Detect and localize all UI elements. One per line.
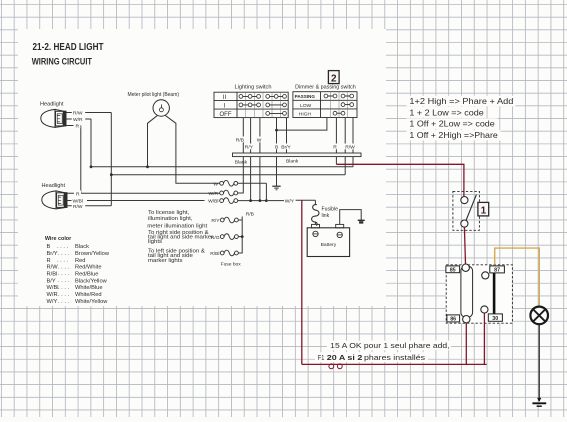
- main wire H2: [111, 157, 345, 175]
- label B: [274, 144, 280, 151]
- fuse R/G: [220, 234, 238, 240]
- svg-text:Brown/Yellow: Brown/Yellow: [75, 251, 110, 257]
- wire R/W from HL2: [67, 113, 111, 206]
- wire W fuse right: [238, 183, 267, 200]
- legend row R/W: [47, 264, 102, 270]
- svg-text:Fusible: Fusible: [322, 207, 339, 213]
- dimmer row labels: [295, 94, 316, 117]
- switch lever: [466, 195, 476, 221]
- red wire switch to relay coil: [464, 227, 465, 264]
- svg-text:To license light,: To license light,: [148, 210, 190, 216]
- relay coil: [461, 266, 473, 317]
- label R: [74, 123, 81, 130]
- svg-text:W: W: [213, 181, 218, 187]
- wire W/Bl from HL2: [67, 200, 205, 202]
- svg-text:II: II: [223, 95, 227, 101]
- svg-text:85: 85: [450, 268, 456, 274]
- svg-text:Red/Blue: Red/Blue: [75, 271, 98, 277]
- wire R from HL2 to W/R fuse: [67, 192, 220, 194]
- lamp wire to ground: [538, 324, 540, 401]
- lamp: [530, 307, 548, 325]
- label Br/Y: [281, 144, 294, 151]
- wire B below bus to ground: [276, 157, 278, 186]
- connector bus bar: [233, 153, 362, 157]
- relay contact terminal top: [482, 272, 489, 279]
- svg-text:R/W: R/W: [73, 204, 83, 210]
- lamp ground symbol: [532, 398, 546, 406]
- svg-text:. . . .: . . . .: [57, 258, 68, 264]
- switch contact top: [461, 197, 468, 204]
- wire R to red feed: [335, 157, 337, 165]
- wire W/Y to fusible link: [296, 200, 316, 205]
- svg-text:PASSING: PASSING: [295, 94, 316, 99]
- junction node on H1 at meter leg: [146, 165, 149, 168]
- label R/W (HL2): [72, 203, 85, 210]
- ground symbol B: [272, 186, 280, 190]
- lighting switch contacts row I: [239, 103, 286, 107]
- svg-text:phares installés: phares installés: [364, 353, 425, 362]
- fuse R/Y: [220, 217, 238, 223]
- svg-text:R/B: R/B: [236, 138, 244, 144]
- scanned page: [18, 29, 386, 306]
- legend row B/Y: [47, 278, 108, 284]
- svg-text:1: 1: [481, 205, 487, 216]
- battery: [307, 224, 349, 256]
- wire R from HL1: [66, 126, 81, 194]
- lighting switch table: [214, 92, 288, 117]
- svg-text:HIGH: HIGH: [299, 111, 312, 117]
- wires from dimmer switch to connector: [277, 118, 354, 154]
- junction node B / dimmer: [275, 129, 278, 132]
- svg-text:Headlight: Headlight: [40, 101, 64, 107]
- svg-text:15 A OK pour 1 seul phare add,: 15 A OK pour 1 seul phare add,: [330, 341, 449, 350]
- svg-text:. . . .: . . . .: [58, 292, 69, 298]
- svg-text:W/Y: W/Y: [285, 198, 295, 204]
- legend row W/R: [47, 292, 102, 298]
- note text to license light: [147, 210, 213, 263]
- svg-text:. . . .: . . . .: [58, 299, 69, 305]
- svg-text:White/Red: White/Red: [75, 292, 102, 298]
- svg-text:Wire color: Wire color: [45, 236, 72, 242]
- relay contact terminal bottom: [481, 306, 488, 313]
- svg-text:White/Blue: White/Blue: [75, 285, 103, 291]
- svg-text:B: B: [275, 145, 278, 151]
- svg-text:Lighting switch: Lighting switch: [235, 84, 272, 90]
- item 2 marker box: [328, 71, 339, 85]
- headlight HL2: [42, 191, 67, 209]
- relay label 86: [447, 315, 460, 323]
- legend row W/Y: [47, 299, 109, 305]
- annotation text background: [407, 96, 516, 141]
- legend row R/Bl: [47, 271, 99, 277]
- svg-text:lights: lights: [148, 239, 162, 245]
- label W/Bl (HL2): [72, 198, 88, 205]
- svg-text:R: R: [76, 191, 80, 197]
- orange wire relay 87 to lamp: [495, 248, 540, 306]
- svg-text:Black: Black: [75, 244, 89, 250]
- svg-text:WIRING CIRCUIT: WIRING CIRCUIT: [32, 57, 93, 67]
- svg-text:LOW: LOW: [300, 103, 312, 109]
- label W/Bl fuse: [205, 198, 219, 205]
- svg-text:W/R: W/R: [47, 292, 58, 298]
- svg-text:meter illumination light: meter illumination light: [147, 224, 207, 230]
- label R/W: [344, 144, 357, 151]
- relay contact bar 87-30: [493, 273, 496, 314]
- battery negative wire to ground: [340, 210, 362, 225]
- relay label 87: [490, 266, 505, 274]
- svg-text:21-2. HEAD LIGHT: 21-2. HEAD LIGHT: [33, 42, 105, 53]
- bottom note background: [315, 341, 451, 362]
- wire R/Y below bus: [250, 157, 252, 201]
- lighting switch contacts row II: [239, 95, 286, 99]
- relay label 30: [488, 314, 502, 322]
- added switch 1 dashed box: [453, 191, 480, 230]
- svg-text:White/Yellow: White/Yellow: [75, 299, 108, 305]
- fuse R/Bl: [220, 250, 238, 256]
- svg-text:. . . .: . . . .: [58, 251, 69, 257]
- main wire H1: [91, 157, 353, 167]
- svg-text:R: R: [76, 124, 80, 130]
- red wire from connector R to relay switch: [336, 164, 464, 196]
- relay dashed box: [446, 265, 512, 323]
- item 1 marker box: [478, 202, 489, 216]
- svg-text:. . . .: . . . .: [57, 244, 68, 250]
- dimmer contacts row HIGH: [333, 111, 345, 115]
- svg-text:link: link: [322, 213, 330, 219]
- svg-text:R: R: [47, 258, 51, 264]
- label R/W: [72, 110, 85, 117]
- junction nodes on W/Bl line: [249, 199, 268, 202]
- svg-text:W/Bl: W/Bl: [208, 199, 218, 205]
- wire R/W from HL1: [66, 112, 111, 114]
- battery positive lead: [314, 222, 316, 225]
- svg-text:. . . .: . . . .: [58, 278, 69, 284]
- svg-text:1 Off + 2Low => code: 1 Off + 2Low => code: [409, 119, 495, 129]
- fuse W: [220, 180, 238, 186]
- svg-text:R: R: [333, 145, 337, 151]
- svg-text:Black/Yellow: Black/Yellow: [75, 278, 108, 284]
- fuse W/R: [220, 190, 238, 196]
- fuse box lower wires and vertical R/B: [238, 217, 242, 254]
- legend row R: [47, 258, 86, 264]
- red wire battery feed down: [301, 200, 303, 364]
- svg-text:W/R: W/R: [73, 117, 83, 123]
- svg-text:1+2 High => Phare + Add: 1+2 High => Phare + Add: [409, 96, 513, 106]
- junction node on H2 at R/W: [110, 173, 113, 176]
- svg-text:Dimmer & passing switch: Dimmer & passing switch: [295, 84, 356, 90]
- wire W below bus: [259, 157, 261, 201]
- wire W/Bl fuse right: [238, 200, 267, 202]
- wire R/B below bus to W/R fuse: [238, 157, 244, 193]
- svg-text:87: 87: [494, 268, 500, 274]
- svg-text:1 Off + 2High =>Phare: 1 Off + 2High =>Phare: [409, 130, 498, 140]
- fuse F1 on red bus: [329, 364, 342, 369]
- red wire relay 86 down: [465, 323, 467, 365]
- svg-text:R/B: R/B: [246, 211, 254, 217]
- relay label 85: [446, 266, 460, 274]
- svg-text:Br/Y: Br/Y: [47, 251, 58, 257]
- dimmer contacts row PASSING: [324, 94, 354, 98]
- meter light left leg: [148, 115, 158, 167]
- svg-text:OFF: OFF: [220, 112, 232, 118]
- relay pin 86 terminal: [463, 316, 470, 323]
- svg-text:B/Y: B/Y: [47, 278, 56, 284]
- svg-text:F1: F1: [318, 353, 325, 362]
- label Fusible link: [322, 207, 339, 219]
- label R/Y: [244, 144, 256, 151]
- svg-text:W/Y: W/Y: [47, 299, 58, 305]
- lighting switch contacts row OFF: [266, 112, 287, 116]
- svg-text:R/W: R/W: [47, 265, 59, 271]
- dimmer contacts row LOW: [341, 103, 354, 107]
- legend row W/Bl: [47, 285, 103, 291]
- wire W/Y from junction: [268, 200, 284, 202]
- dimmer switch table: [293, 92, 357, 118]
- svg-text:R/Y: R/Y: [211, 218, 220, 224]
- svg-text:W/R: W/R: [208, 191, 218, 197]
- svg-text:R/Bl: R/Bl: [47, 271, 58, 277]
- svg-text:1 + 2 Low => code: 1 + 2 Low => code: [409, 107, 484, 117]
- switch contact bottom: [461, 220, 468, 227]
- fuse W/Bl: [220, 198, 238, 204]
- meter light right leg to W fuse: [165, 115, 220, 183]
- svg-text:30: 30: [492, 316, 498, 322]
- svg-text:. . . .: . . . .: [58, 264, 69, 270]
- label R (HL2): [74, 190, 81, 197]
- battery ground symbol: [358, 220, 365, 223]
- svg-text:marker lights: marker lights: [148, 258, 183, 264]
- svg-text:Blank: Blank: [286, 158, 299, 164]
- fusible link symbol: [312, 205, 319, 226]
- svg-text:R/Bl: R/Bl: [210, 251, 219, 257]
- svg-text:Meter pilot light (Beam): Meter pilot light (Beam): [128, 92, 180, 98]
- svg-text:. . . .: . . . .: [58, 271, 69, 277]
- svg-text:Br/Y: Br/Y: [281, 145, 291, 151]
- svg-text:Fuse box: Fuse box: [221, 261, 242, 267]
- svg-text:W/Bl: W/Bl: [47, 285, 59, 291]
- label W: [256, 137, 264, 144]
- svg-text:R/W: R/W: [73, 111, 83, 117]
- svg-text:illumination light,: illumination light,: [148, 216, 193, 222]
- junction node on H1 at W/R: [90, 165, 93, 168]
- relay pin 85 terminal: [462, 264, 469, 271]
- label R/B: [235, 137, 247, 144]
- svg-text:Blank: Blank: [235, 159, 248, 165]
- label W/R: [72, 116, 85, 123]
- meter pilot light lamp: [153, 100, 169, 116]
- svg-text:Red: Red: [75, 258, 85, 264]
- svg-text:Headlight: Headlight: [42, 183, 66, 189]
- wires from lighting switch to connector: [243, 118, 286, 153]
- svg-text:B: B: [47, 244, 51, 250]
- red bottom bus wire: [302, 363, 487, 365]
- junction node lower: [241, 235, 244, 238]
- svg-text:2: 2: [331, 73, 337, 84]
- svg-text:R/W: R/W: [345, 145, 355, 151]
- svg-text:Red/White: Red/White: [75, 265, 102, 271]
- svg-text:. . . .: . . . .: [58, 285, 69, 291]
- headlight HL1: [41, 109, 66, 127]
- red wire relay 30 down: [483, 313, 485, 364]
- svg-text:Battery: Battery: [321, 242, 337, 248]
- lighting switch row labels: [220, 95, 232, 118]
- label R: [332, 144, 339, 151]
- wire W/R from HL1: [66, 119, 91, 167]
- svg-text:86: 86: [450, 317, 456, 323]
- svg-text:20 A si 2: 20 A si 2: [327, 353, 363, 362]
- legend row Br/Y: [47, 251, 110, 257]
- legend row B: [47, 244, 90, 250]
- svg-text:R/Y: R/Y: [245, 145, 254, 151]
- svg-text:W: W: [257, 138, 262, 144]
